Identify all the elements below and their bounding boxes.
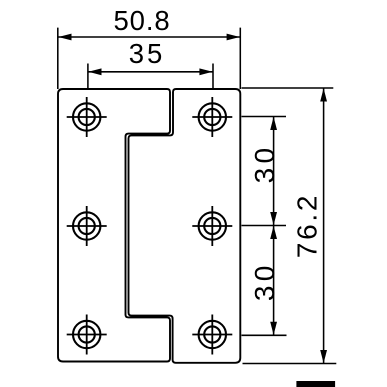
dimension 30 upper (242, 117, 287, 226)
svg-text:50.8: 50.8 (113, 5, 170, 36)
hole top-right (192, 97, 232, 137)
dimension 50.8 top (58, 28, 241, 89)
hinge leaf right (129, 89, 241, 363)
hole mid-left (67, 206, 107, 246)
svg-text:76.2: 76.2 (292, 193, 323, 258)
black bar bottom-right (296, 381, 335, 387)
dimension 76.2 right (242, 88, 337, 364)
hole mid-right (192, 206, 232, 246)
svg-text:30: 30 (249, 261, 280, 301)
hinge leaf left (58, 89, 170, 362)
dimension 30 lower (242, 226, 287, 336)
svg-text:30: 30 (249, 144, 280, 184)
svg-text:35: 35 (129, 38, 166, 69)
dimension 35 (88, 64, 213, 90)
hole bottom-left (67, 315, 107, 355)
hole bottom-right (192, 315, 232, 355)
hole top-left (67, 97, 107, 137)
